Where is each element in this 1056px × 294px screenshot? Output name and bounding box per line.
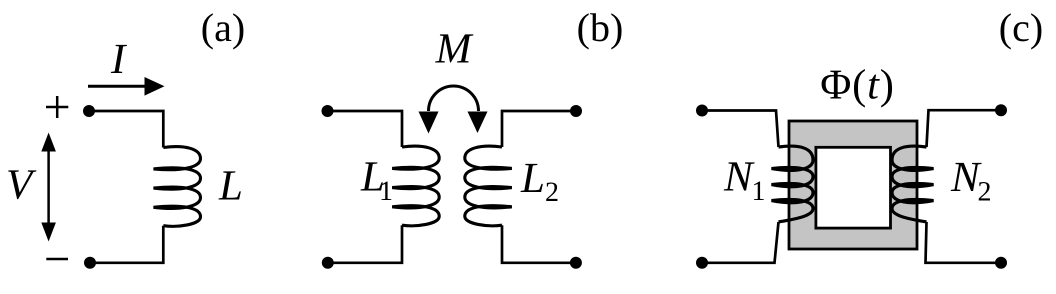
svg-text:M: M: [435, 26, 474, 73]
svg-text:Φ(t): Φ(t): [820, 62, 894, 109]
svg-text:2: 2: [545, 177, 559, 208]
svg-text:I: I: [110, 36, 127, 83]
svg-text:V: V: [6, 162, 37, 209]
svg-text:(a): (a): [201, 5, 245, 50]
svg-text:(c): (c): [999, 5, 1043, 50]
svg-text:L: L: [520, 155, 545, 202]
svg-text:1: 1: [752, 176, 766, 207]
svg-text:1: 1: [379, 176, 393, 207]
svg-text:N: N: [723, 154, 755, 201]
svg-text:2: 2: [978, 177, 992, 208]
svg-text:L: L: [218, 163, 243, 210]
svg-text:(b): (b): [577, 5, 624, 50]
